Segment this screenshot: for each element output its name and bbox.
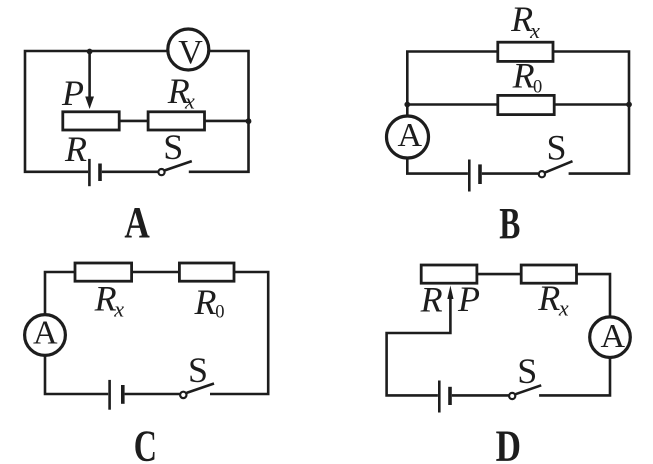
- svg-text:V: V: [178, 34, 203, 71]
- svg-text:R: R: [194, 282, 217, 322]
- svg-text:P: P: [61, 73, 84, 113]
- svg-text:A: A: [33, 315, 58, 352]
- svg-text:A: A: [398, 117, 423, 154]
- svg-text:A: A: [124, 198, 150, 247]
- svg-text:B: B: [499, 199, 520, 248]
- svg-text:D: D: [496, 421, 521, 464]
- svg-text:P: P: [457, 279, 480, 319]
- svg-text:0: 0: [533, 78, 542, 98]
- svg-text:R: R: [64, 129, 87, 169]
- svg-text:R: R: [94, 279, 117, 319]
- svg-text:S: S: [547, 127, 567, 167]
- svg-text:S: S: [517, 351, 537, 391]
- svg-text:S: S: [188, 350, 208, 390]
- svg-text:x: x: [558, 295, 569, 320]
- svg-text:A: A: [601, 318, 626, 355]
- svg-text:R: R: [512, 56, 535, 96]
- svg-text:x: x: [113, 296, 124, 321]
- svg-text:C: C: [134, 421, 157, 464]
- svg-text:x: x: [184, 89, 195, 114]
- svg-text:R: R: [420, 280, 443, 320]
- svg-text:0: 0: [215, 303, 224, 323]
- svg-text:S: S: [163, 127, 183, 167]
- svg-text:x: x: [529, 18, 540, 43]
- svg-text:R: R: [537, 278, 560, 318]
